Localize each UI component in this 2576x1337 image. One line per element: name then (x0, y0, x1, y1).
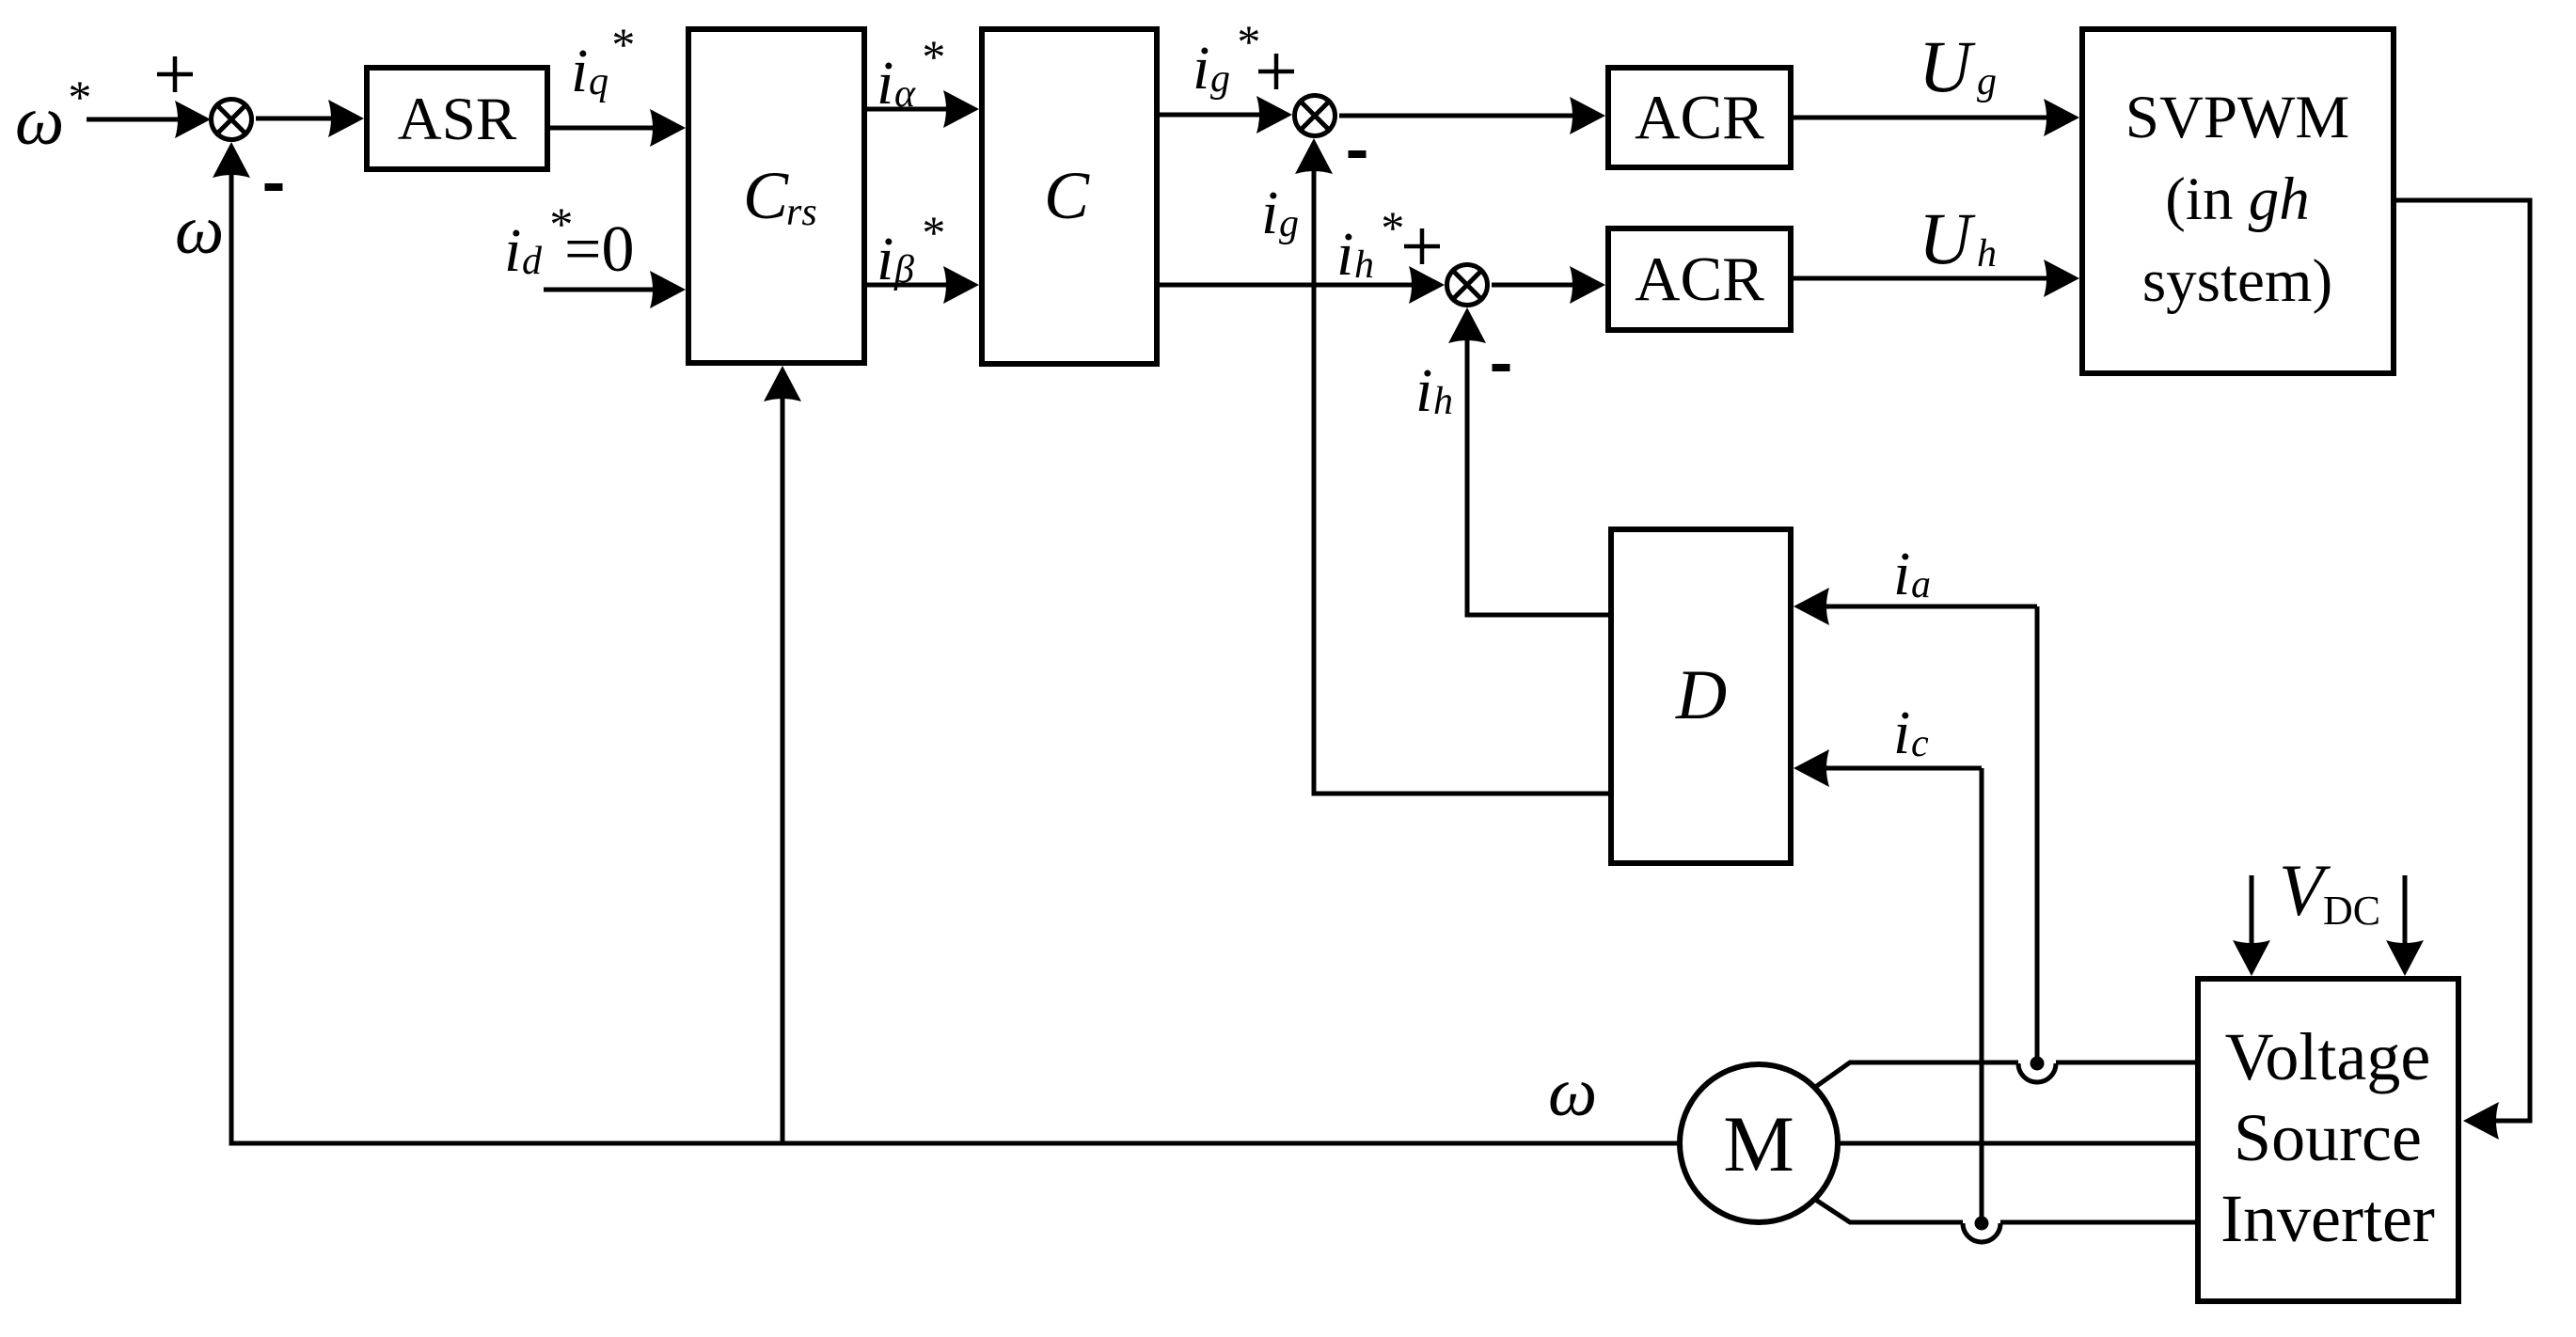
wire Crs to C ialpha* with label (867, 107, 949, 112)
svg-text:U: U (1919, 197, 1976, 279)
summing junction S3 (h-axis current error) (1447, 265, 1488, 306)
wire ACR2 to SVPWM with Uh label (1794, 276, 2049, 281)
block SVPWM (in gh system) (2082, 29, 2394, 373)
wire ASR to Crs with iq* label (550, 126, 656, 131)
block C (Clarke-type transform) (982, 29, 1157, 364)
wire omega into Crs bottom (781, 396, 785, 1143)
minus sign at S2 (1349, 150, 1367, 158)
svg-text:i: i (1193, 34, 1209, 102)
plus sign at speed summing junction (157, 72, 193, 77)
svg-text:rs: rs (786, 191, 817, 234)
svg-text:Voltage: Voltage (2225, 1019, 2431, 1094)
svg-text:i: i (877, 225, 893, 293)
svg-text:h: h (1433, 380, 1453, 423)
svg-text:q: q (589, 60, 608, 103)
summing junction S1 (speed error) (212, 100, 252, 140)
plus sign at S2 (1258, 70, 1294, 74)
svg-text:ACR: ACR (1635, 244, 1764, 314)
svg-text:*: * (66, 71, 89, 123)
svg-text:*: * (1379, 201, 1402, 254)
svg-text:β: β (893, 248, 914, 291)
svg-text:i: i (1893, 699, 1910, 767)
wire C to S2 ig* (1160, 113, 1262, 118)
block D (current decoupling/transform) (1611, 529, 1791, 863)
wire ACR1 to SVPWM with Ug label (1794, 116, 2049, 120)
svg-text:Source: Source (2234, 1100, 2422, 1175)
current sensor on phase c (1963, 1223, 2000, 1242)
wire C to S3 ih* (1160, 283, 1414, 288)
svg-text:(in gh: (in gh (2165, 165, 2309, 233)
svg-text:C: C (1044, 158, 1090, 233)
svg-text:i: i (1261, 179, 1278, 247)
svg-text:ASR: ASR (398, 86, 517, 153)
current sensor on phase a (2018, 1063, 2056, 1082)
svg-text:α: α (894, 72, 916, 116)
svg-text:d: d (522, 240, 543, 283)
wire SVPWM output to VSI (2396, 200, 2530, 1121)
block Voltage Source Inverter (2198, 979, 2458, 1301)
minus sign at S3 (1493, 364, 1510, 371)
svg-text:a: a (1911, 563, 1931, 606)
svg-text:g: g (1279, 202, 1299, 245)
svg-text:*: * (920, 30, 943, 83)
svg-text:*: * (920, 206, 943, 259)
block ACR1 (g-axis current regulator) (1608, 68, 1791, 167)
svg-text:i: i (877, 49, 893, 118)
svg-text:=0: =0 (564, 213, 634, 286)
svg-text:ω: ω (15, 83, 64, 160)
svg-text:*: * (609, 18, 633, 71)
wire ic from sensor to D (1794, 749, 1829, 787)
block Crs (rotating to stationary transform) (688, 29, 864, 363)
svg-text:ω: ω (1548, 1054, 1597, 1131)
wire ia from sensor to D (1794, 588, 1829, 625)
wire S1 to ASR (256, 117, 334, 121)
plus sign at S3 (1404, 244, 1440, 249)
motor M circle (1680, 1064, 1838, 1222)
wire ih feedback from D to S3 (1467, 338, 1610, 615)
wire S2 to ACR1 (1339, 114, 1575, 118)
svg-text:i: i (504, 216, 521, 285)
svg-text:M: M (1723, 1100, 1794, 1188)
svg-text:*: * (1235, 15, 1258, 68)
svg-text:C: C (743, 158, 789, 233)
svg-text:SVPWM: SVPWM (2126, 84, 2349, 151)
svg-text:DC: DC (2323, 888, 2380, 934)
wire omega feedback from motor to S1 (231, 172, 1680, 1143)
svg-text:g: g (1210, 57, 1230, 101)
wire motor phase c (bottom) (1814, 1199, 1963, 1222)
wire id*=0 to Crs (544, 288, 656, 292)
wire omega* input (87, 118, 181, 122)
wire S3 to ACR2 (1492, 283, 1575, 288)
svg-text:ω: ω (175, 192, 224, 269)
block ACR2 (h-axis current regulator) (1608, 228, 1791, 330)
svg-text:c: c (1911, 722, 1929, 765)
summing junction S2 (g-axis current error) (1295, 96, 1335, 136)
block ASR (speed regulator) (367, 68, 547, 169)
svg-text:i: i (1336, 220, 1353, 289)
wire VDC arrow left (2250, 875, 2254, 946)
svg-text:h: h (1354, 244, 1374, 287)
minus sign at S1 (265, 183, 283, 191)
wire ig feedback from D to S2 (1314, 168, 1610, 794)
svg-text:Inverter: Inverter (2220, 1181, 2435, 1256)
wire motor phase b (middle) (1838, 1141, 2195, 1146)
svg-text:h: h (1977, 232, 1997, 275)
svg-text:i: i (1415, 356, 1432, 425)
wire motor phase a (top) (1814, 1062, 2018, 1088)
svg-text:ACR: ACR (1635, 83, 1764, 152)
svg-text:g: g (1977, 60, 1997, 103)
svg-text:i: i (1893, 540, 1910, 608)
svg-text:D: D (1675, 656, 1727, 734)
wire VDC arrow right (2403, 875, 2408, 946)
svg-text:system): system) (2142, 247, 2332, 315)
svg-text:U: U (1919, 25, 1976, 107)
wire Crs to C ibeta* with label (867, 283, 949, 288)
svg-text:i: i (571, 37, 588, 105)
